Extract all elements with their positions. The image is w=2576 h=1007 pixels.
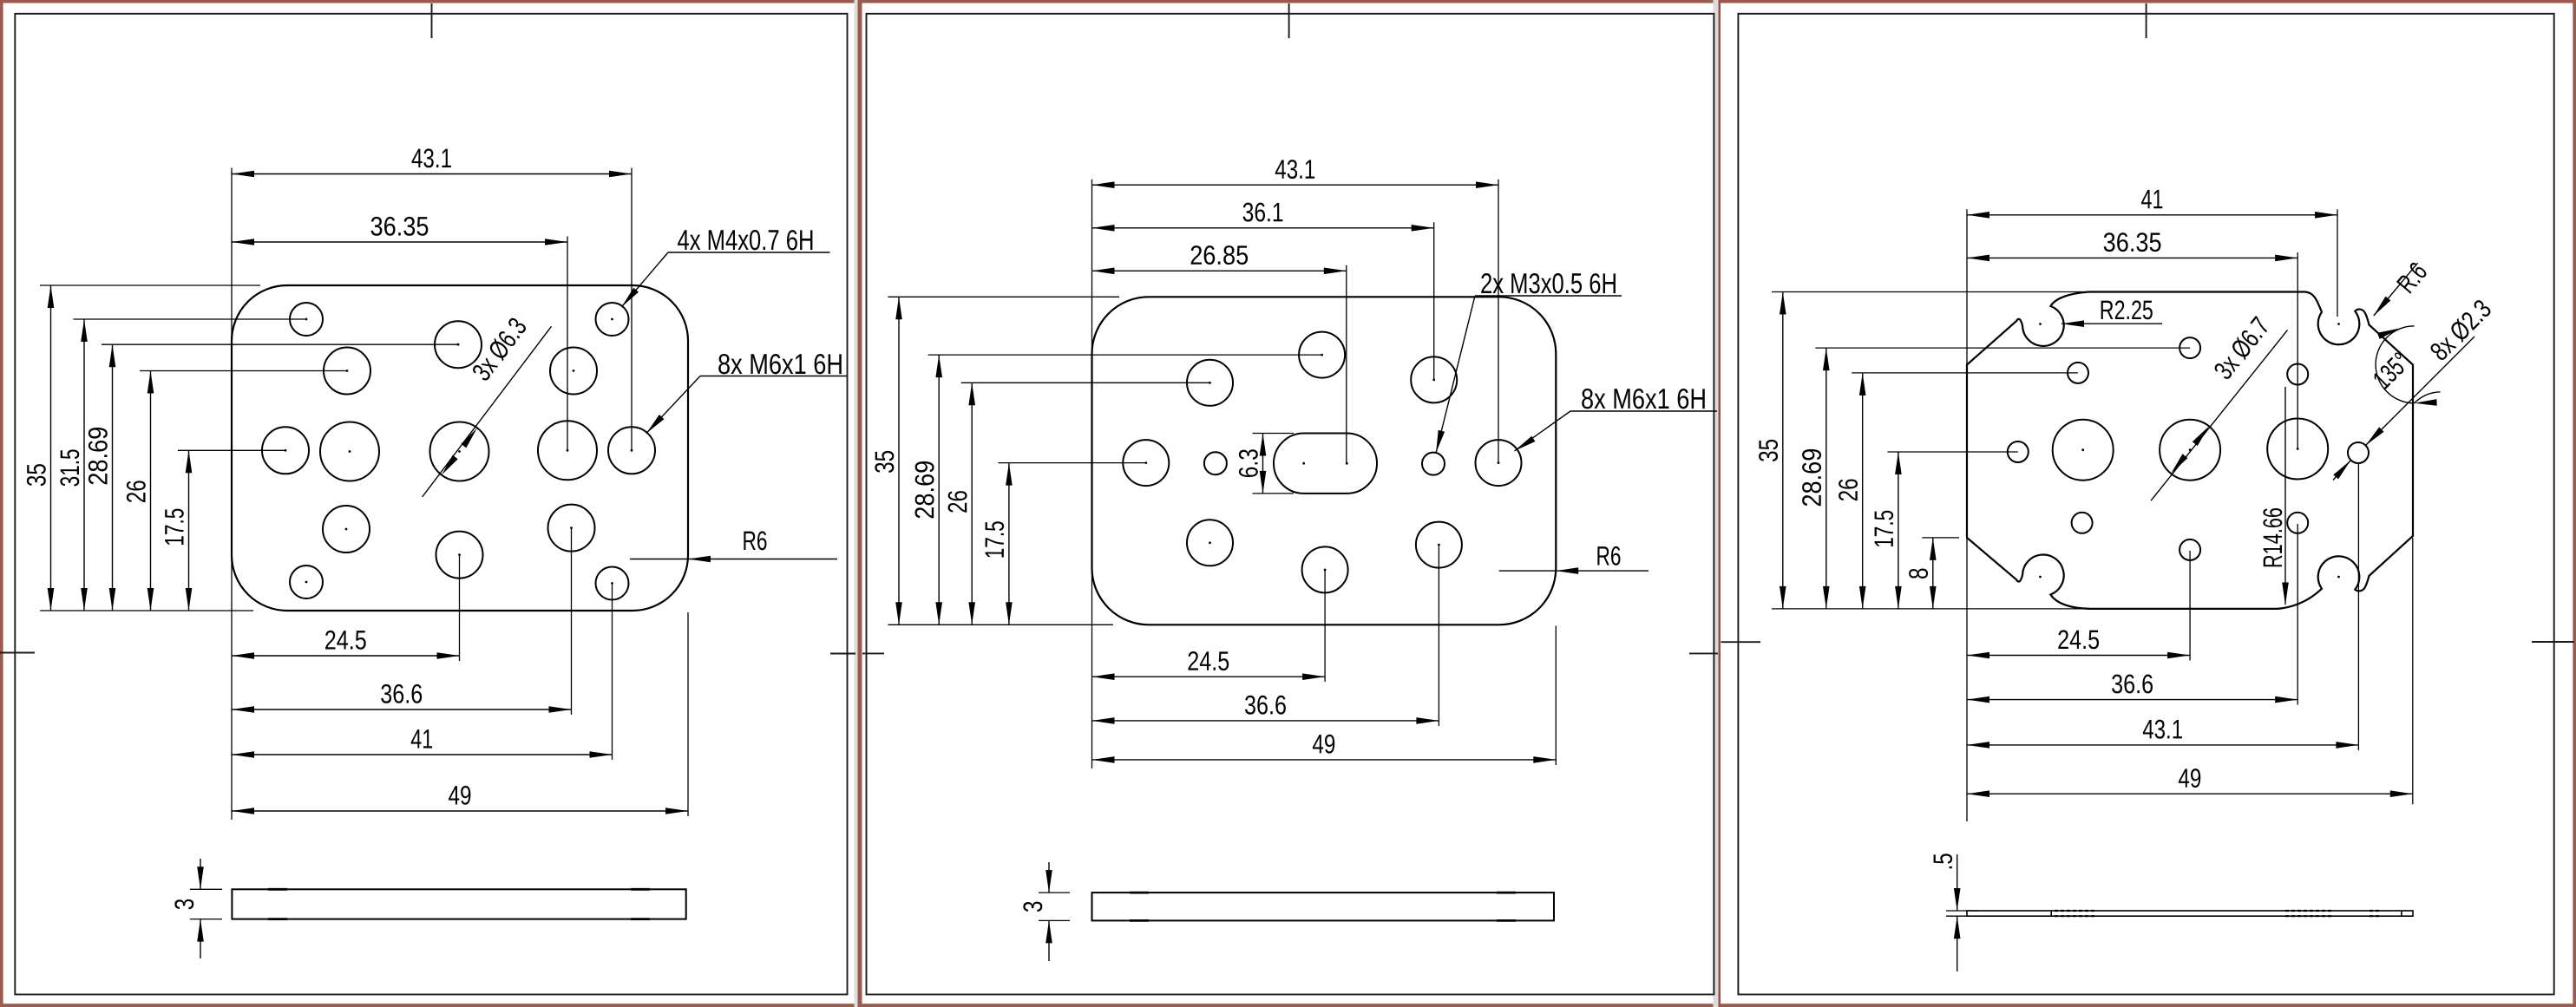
extension line 41 — [612, 585, 613, 760]
frame center tick top — [1288, 3, 1290, 38]
extension line 43.1 right — [1498, 180, 1499, 463]
panel divider 1 — [855, 0, 858, 1007]
svg-text:17.5: 17.5 — [1869, 510, 1899, 548]
extension line 8 top — [1922, 537, 1959, 539]
dimension 17.5 — [1008, 463, 1010, 625]
extension line 43.1 — [2357, 463, 2359, 750]
panel 2: 2x M3 tapped holes — [1204, 452, 1227, 474]
dimension 41 — [1967, 214, 2337, 216]
extension line 26 top — [140, 370, 347, 372]
frame center tick top — [2146, 3, 2147, 38]
dimension 28.69 — [1825, 348, 1827, 609]
dimension 8 — [1932, 538, 1934, 609]
dimension 3 thickness — [200, 859, 201, 889]
svg-text:49: 49 — [448, 780, 471, 810]
svg-text:17.5: 17.5 — [980, 520, 1010, 559]
dimension 24.5 — [1967, 655, 2190, 657]
dimension 49 — [1092, 759, 1557, 761]
dimension 26.85 — [1092, 270, 1347, 271]
svg-text:8x M6x1 6H: 8x M6x1 6H — [718, 348, 843, 380]
svg-text:R6: R6 — [742, 526, 767, 556]
leader R6 corner radius — [1499, 570, 1649, 572]
extension line 28.69 top — [928, 354, 1322, 356]
drawing sheet frame — [1738, 14, 2553, 995]
dimension 35 — [50, 285, 52, 611]
svg-text:26: 26 — [121, 480, 151, 503]
dimension 26 — [971, 383, 973, 624]
extension line 24.5 — [2189, 551, 2191, 661]
svg-text:4x M4x0.7 6H: 4x M4x0.7 6H — [677, 224, 814, 256]
svg-text:3: 3 — [169, 899, 200, 911]
dimension 36.35 — [232, 241, 567, 243]
diameter dimension 3x 6.7 — [2151, 330, 2287, 501]
extension line 26.85 right — [1346, 265, 1347, 463]
svg-text:41: 41 — [410, 723, 433, 754]
svg-text:3: 3 — [1018, 900, 1048, 912]
panel 1: 4x M4 tapped holes — [290, 303, 323, 336]
extension line bottom (shared left) — [40, 610, 253, 611]
frame center tick right — [1689, 652, 1718, 654]
frame center tick left — [0, 652, 35, 654]
svg-text:49: 49 — [1312, 729, 1335, 759]
svg-text:17.5: 17.5 — [159, 508, 189, 546]
extension line bottom (shared left) — [1772, 608, 2088, 610]
extension line 36.35 right — [567, 237, 568, 451]
extension line 35 top — [40, 284, 260, 286]
panel 1: 3x diameter 6.3 holes — [320, 422, 379, 481]
panel 1 side view plate 3mm thick — [232, 889, 685, 919]
panel 3: 8x diameter 2.3 holes — [2179, 337, 2200, 358]
svg-text:8: 8 — [1904, 568, 1934, 580]
dimension 49 — [232, 810, 688, 812]
frame center tick top — [431, 3, 433, 38]
panel 3 side view shim 0.5mm thick — [1967, 911, 2413, 916]
dimension 36.1 — [1092, 227, 1434, 229]
extension line left (shared) — [1091, 180, 1093, 768]
dimension 3 thickness — [1048, 862, 1050, 893]
extension line bottom (shared left) — [888, 624, 1114, 625]
drawing sheet frame — [867, 14, 1714, 995]
notch center marks — [2039, 323, 2042, 325]
panel 2 side view plate 3mm thick — [1092, 893, 1555, 920]
leader R.6 fillet radius — [2374, 263, 2418, 316]
extension line 43.1 right — [631, 168, 633, 451]
dimension 43.1 — [1967, 744, 2358, 746]
svg-text:28.69: 28.69 — [1797, 448, 1827, 507]
leader R6 corner radius — [630, 559, 837, 560]
svg-text:28.69: 28.69 — [909, 461, 940, 520]
svg-text:43.1: 43.1 — [2142, 714, 2183, 744]
dimension 49 — [1967, 793, 2413, 794]
extension line 36.6 — [1438, 546, 1439, 727]
panel 1: 8x M6 tapped holes — [435, 321, 482, 368]
leader R2.25 notch radius — [2061, 323, 2162, 324]
dimension 35 — [1782, 292, 1784, 609]
drawing sheet frame — [15, 14, 847, 995]
dimension 41 — [232, 754, 613, 755]
svg-text:26: 26 — [1833, 478, 1864, 501]
extension line 36.35 right — [2297, 252, 2298, 449]
window chrome brown borders — [0, 0, 2576, 3]
svg-text:26: 26 — [942, 490, 973, 513]
svg-text:2x M3x0.5 6H: 2x M3x0.5 6H — [1480, 267, 1617, 299]
svg-text:R14.66: R14.66 — [2258, 507, 2288, 568]
svg-text:36.35: 36.35 — [2103, 227, 2162, 258]
svg-text:36.6: 36.6 — [2111, 669, 2153, 699]
extension line 26 top — [961, 382, 1210, 383]
frame center tick right — [2532, 641, 2574, 643]
dimension 36.6 — [1967, 699, 2297, 701]
extension line 35 top — [888, 296, 1120, 298]
extension line 24.5 — [459, 556, 461, 661]
dimension 26 — [1862, 373, 1864, 609]
callout 2x M3x0.5 6H — [1475, 295, 1622, 297]
svg-text:36.35: 36.35 — [370, 211, 429, 241]
svg-text:28.69: 28.69 — [82, 427, 113, 486]
svg-text:R6: R6 — [1596, 540, 1621, 571]
svg-text:24.5: 24.5 — [1187, 646, 1229, 677]
dimension 43.1 — [1092, 184, 1499, 186]
frame center tick right — [830, 653, 855, 655]
dimension 36.6 — [1092, 720, 1439, 722]
extension line 26 top — [1852, 372, 2078, 374]
dimension 24.5 — [232, 655, 460, 657]
extension line 36.6 — [571, 529, 573, 715]
diameter dimension 8x 2.3 — [2333, 461, 2351, 481]
svg-text:R2.25: R2.25 — [2100, 295, 2153, 325]
panel 2 plate outline (rounded rectangle 49x35 R6) — [1092, 297, 1557, 624]
dimension 6.3 slot width — [1262, 434, 1264, 494]
leader R14.66 blend radius — [2284, 387, 2286, 605]
dimension 26 — [150, 371, 152, 611]
dimension 31.5 — [83, 319, 85, 611]
svg-text:24.5: 24.5 — [324, 624, 367, 655]
extension line left (shared) — [231, 168, 233, 821]
extension line left (shared) — [1966, 209, 1968, 821]
dimension 17.5 — [188, 450, 190, 611]
panel 3 shim outline with corner scallop notches — [1967, 292, 2413, 609]
callout 8x M6x1 6H — [1570, 410, 1717, 412]
frame center tick left — [862, 652, 884, 654]
panel 2: slot 6.3 wide — [1274, 434, 1377, 494]
svg-text:26.85: 26.85 — [1190, 240, 1249, 271]
frame center tick left — [1721, 641, 1761, 643]
dimension 43.1 — [232, 173, 632, 175]
angular dimension 135 degrees — [2376, 326, 2415, 403]
svg-text:.5: .5 — [1928, 853, 1958, 870]
svg-text:49: 49 — [2178, 763, 2201, 794]
svg-text:24.5: 24.5 — [2057, 624, 2100, 655]
extension line 17.5 top — [178, 449, 285, 451]
svg-text:31.5: 31.5 — [55, 448, 85, 487]
extension line 28.69 top — [1815, 347, 2190, 349]
extension line 36.1 right — [1433, 222, 1435, 380]
dimension 36.6 — [232, 709, 572, 710]
callout 8x M6x1 6H — [700, 376, 847, 377]
extension line 49 right — [687, 612, 689, 816]
dimension 28.69 — [938, 355, 940, 624]
panel 3: 3x diameter 6.7 holes — [2053, 420, 2114, 481]
svg-text:36.6: 36.6 — [1244, 690, 1287, 720]
svg-text:36.6: 36.6 — [380, 678, 423, 709]
extension line 35 top — [1772, 291, 2087, 293]
svg-text:6.3: 6.3 — [1233, 448, 1263, 478]
dimension 35 — [898, 297, 900, 624]
extension line 49 right — [1555, 626, 1557, 766]
extension line 28.69 top — [102, 343, 458, 345]
svg-text:35: 35 — [869, 450, 900, 474]
extension line 17.5 top — [1887, 451, 2017, 453]
svg-text:36.1: 36.1 — [1242, 197, 1284, 227]
dimension 36.35 — [1967, 257, 2297, 258]
dimension .5 thickness — [1957, 854, 1958, 911]
panel divider 2 — [1714, 0, 1719, 1007]
callout 4x M4x0.7 6H — [668, 252, 830, 253]
dimension 28.69 — [112, 344, 114, 611]
extension line 31.5 top — [74, 318, 307, 320]
extension line 17.5 top — [998, 462, 1145, 464]
svg-text:8x M6x1 6H: 8x M6x1 6H — [1581, 383, 1707, 415]
svg-text:43.1: 43.1 — [411, 143, 452, 173]
diameter dimension 3x 6.3 — [423, 326, 552, 497]
extension line 24.5 — [1324, 571, 1326, 682]
dimension 17.5 — [1898, 452, 1899, 609]
extension line 41 right — [2337, 209, 2338, 317]
svg-text:35: 35 — [21, 463, 51, 487]
panel 1 plate outline (rounded rectangle 49x35 R6) — [232, 285, 688, 611]
extension line 36.6 — [2297, 524, 2298, 705]
dimension 24.5 — [1092, 676, 1326, 677]
svg-text:43.1: 43.1 — [1275, 154, 1315, 185]
panel 2: 8x M6 tapped holes — [1299, 332, 1345, 378]
svg-text:35: 35 — [1753, 439, 1784, 462]
svg-text:41: 41 — [2140, 184, 2163, 214]
extension line 49 right — [2412, 538, 2414, 804]
